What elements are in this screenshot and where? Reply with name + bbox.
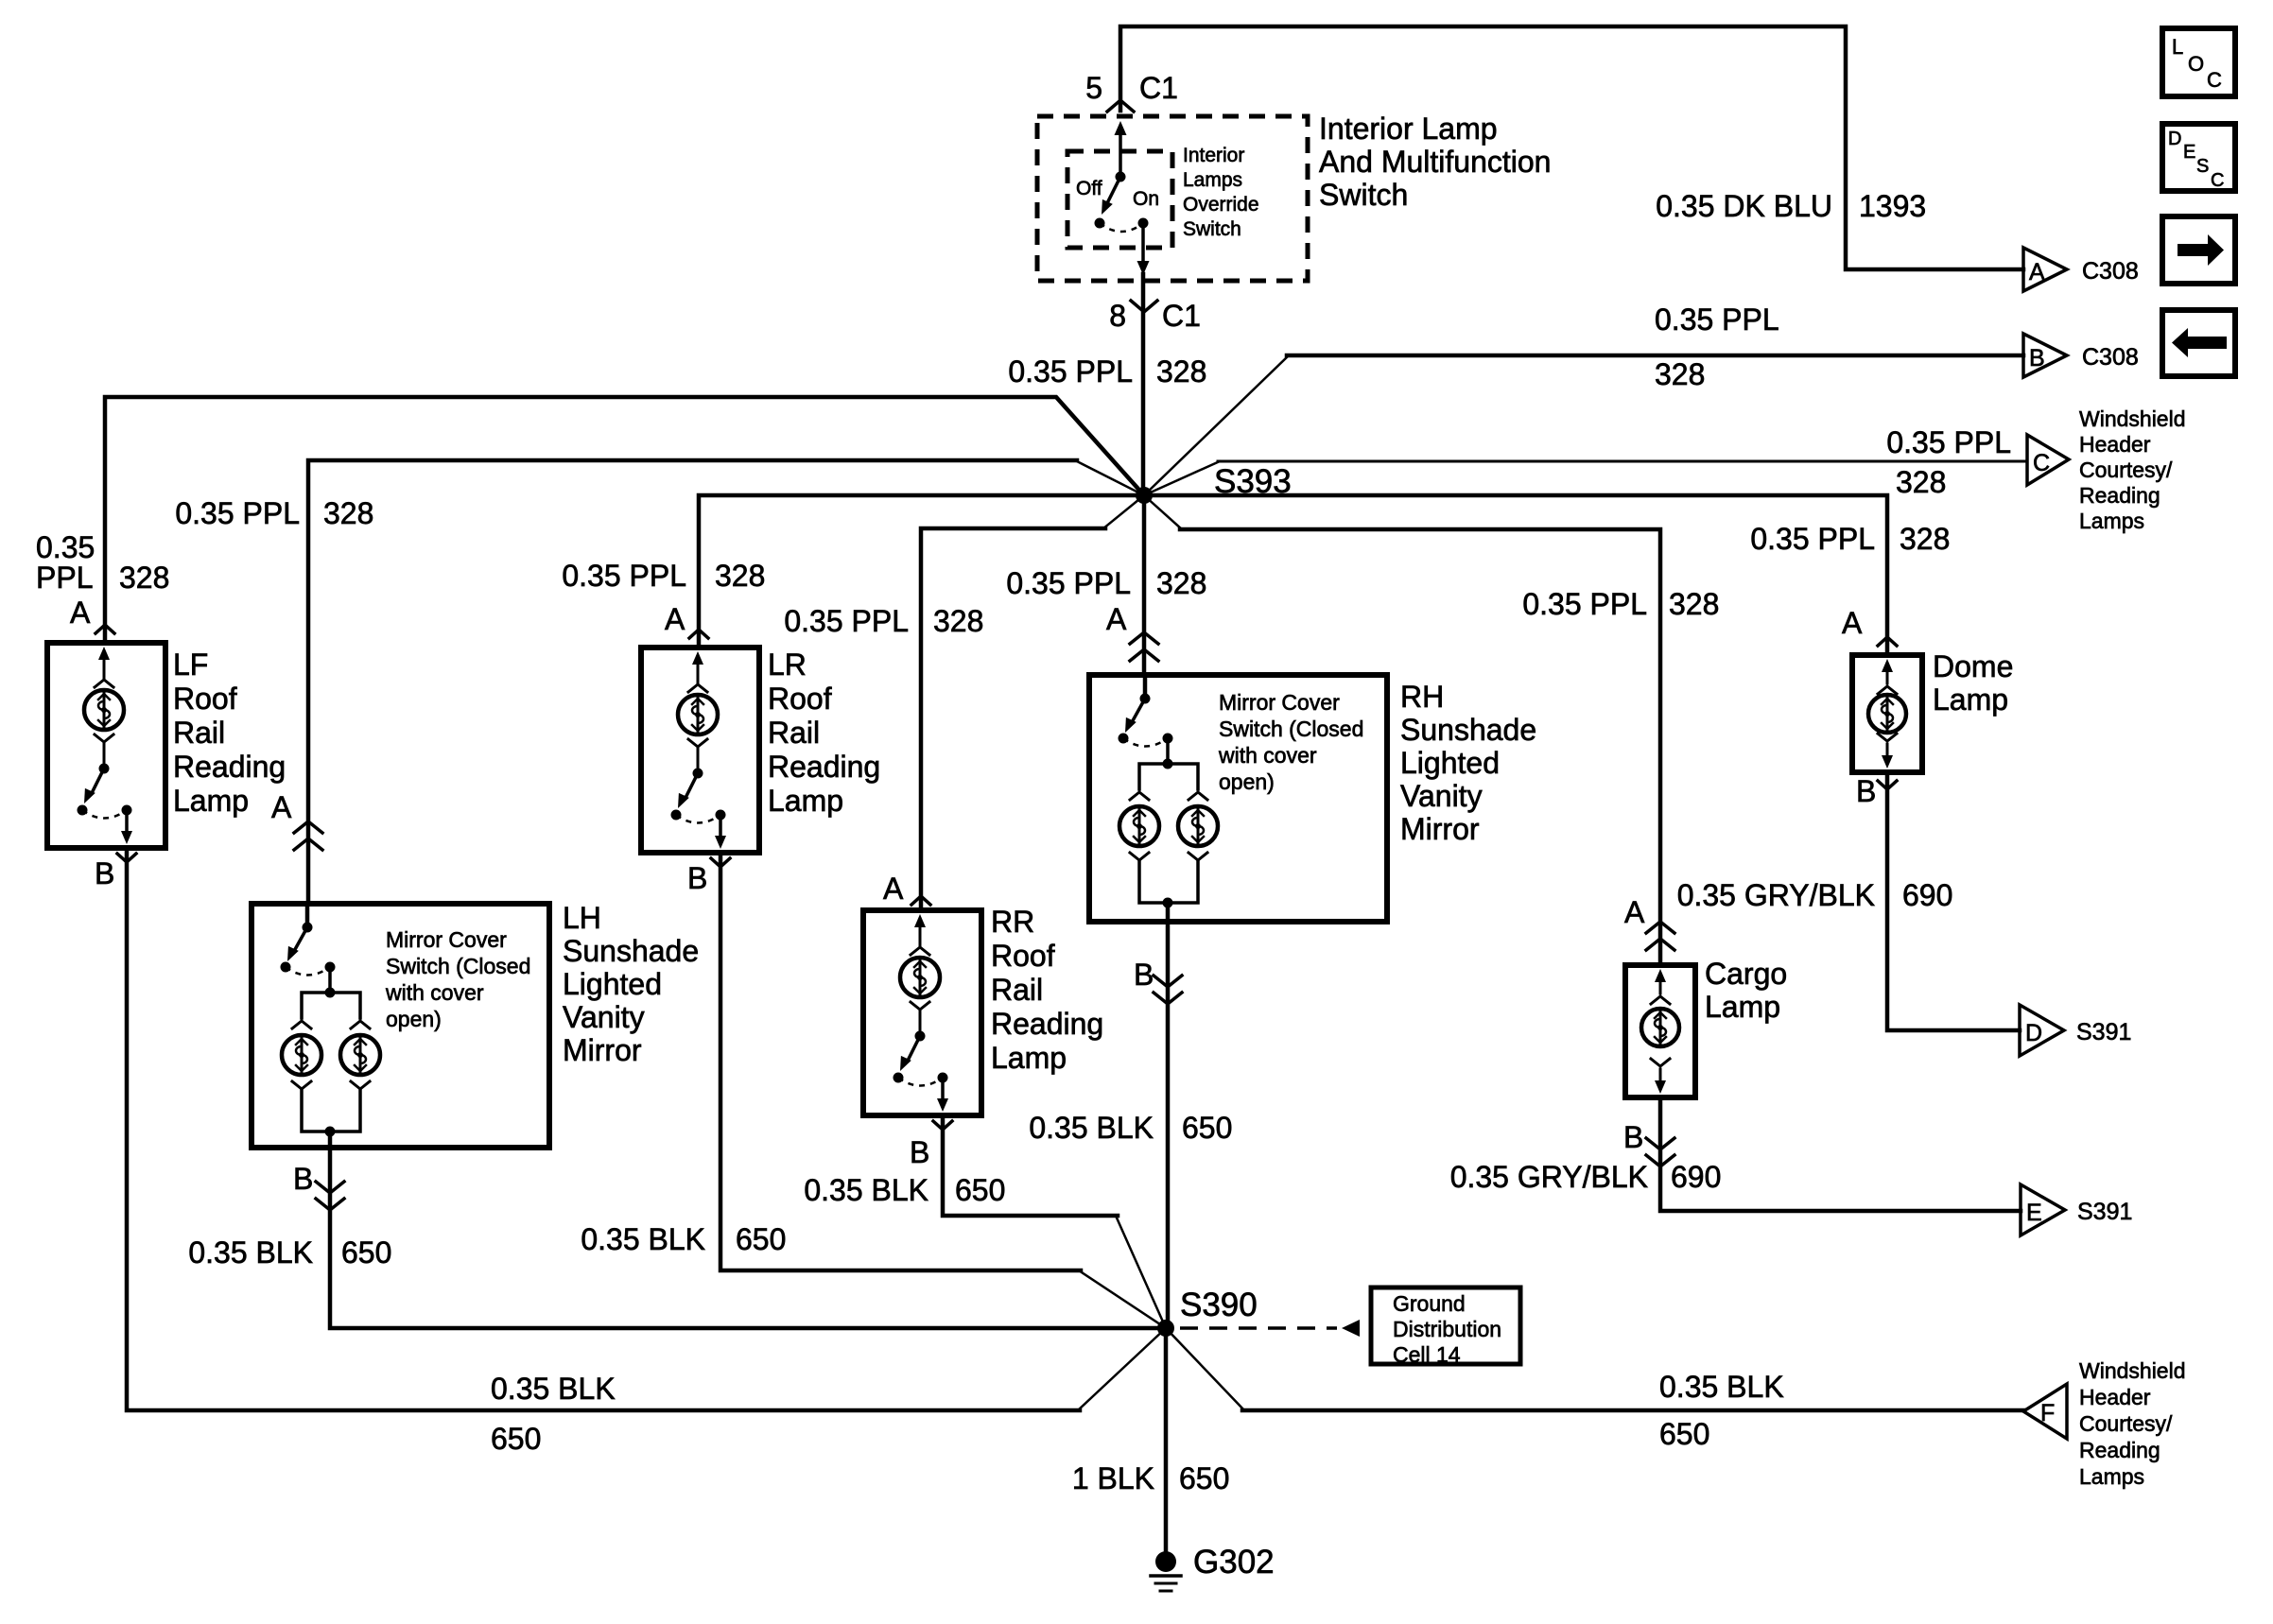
- svg-text:0.35 PPL: 0.35 PPL: [175, 496, 300, 530]
- terminal chevron A (RR): [911, 896, 930, 905]
- svg-text:Lighted: Lighted: [563, 967, 662, 1001]
- svg-text:Vanity: Vanity: [1400, 779, 1483, 813]
- svg-text:Mirror Cover: Mirror Cover: [386, 927, 507, 952]
- override switch Off contact dot: [1095, 218, 1105, 229]
- svg-text:Lamp: Lamp: [768, 784, 843, 818]
- svg-text:650: 650: [491, 1422, 541, 1456]
- svg-text:650: 650: [736, 1222, 786, 1256]
- connector triangle D to S391: [2020, 1005, 2064, 1056]
- svg-text:A: A: [2029, 259, 2045, 285]
- svg-text:B: B: [687, 861, 707, 895]
- svg-text:Vanity: Vanity: [563, 1000, 645, 1034]
- svg-text:A: A: [70, 596, 91, 630]
- svg-text:Dome: Dome: [1933, 649, 2013, 683]
- svg-text:650: 650: [1659, 1417, 1709, 1451]
- svg-text:Roof: Roof: [173, 682, 237, 716]
- cargo lamp box: [1625, 965, 1695, 1097]
- wire 0.35 BLK 650 from RR lamp to splice S390: [943, 1115, 1118, 1216]
- svg-text:0.35 DK BLU: 0.35 DK BLU: [1656, 189, 1832, 223]
- terminal chevron B (LF): [117, 854, 136, 862]
- wire circuit 328 from switch pin 8 down to splice S393: [1141, 274, 1146, 495]
- svg-text:A: A: [1106, 602, 1127, 636]
- svg-text:0.35 BLK: 0.35 BLK: [1659, 1370, 1784, 1404]
- svg-text:328: 328: [1156, 354, 1206, 389]
- wire 0.35 PPL 328 from S393 to windshield header connector C: [1144, 461, 1220, 495]
- svg-text:8: 8: [1109, 299, 1126, 333]
- svg-text:PPL: PPL: [36, 561, 93, 595]
- svg-text:Reading: Reading: [2079, 1438, 2160, 1462]
- LR roof rail reading lamp box: [641, 648, 759, 853]
- connector chevron pin 5: [1107, 100, 1134, 112]
- svg-text:L: L: [2172, 35, 2183, 59]
- wire 0.35 PPL 328 from S393 to LR roof rail reading lamp: [699, 495, 1144, 648]
- svg-text:Lamp: Lamp: [173, 784, 249, 818]
- svg-text:Roof: Roof: [768, 682, 832, 716]
- svg-text:650: 650: [955, 1173, 1005, 1207]
- RR roof rail reading lamp box: [863, 910, 981, 1115]
- svg-text:Lamp: Lamp: [991, 1041, 1067, 1075]
- terminal chevron B (RR): [933, 1121, 952, 1130]
- terminal chevron B (LR): [711, 858, 730, 867]
- svg-text:328: 328: [1655, 357, 1705, 391]
- svg-text:0.35 BLK: 0.35 BLK: [188, 1235, 313, 1270]
- svg-text:Rail: Rail: [173, 716, 225, 750]
- svg-text:B: B: [95, 856, 114, 890]
- svg-text:On: On: [1133, 188, 1159, 210]
- RH sunshade lighted vanity mirror box: [1089, 675, 1387, 922]
- svg-text:RH: RH: [1400, 680, 1444, 714]
- svg-text:Distribution: Distribution: [1393, 1317, 1501, 1341]
- terminal chevron A (LR): [689, 630, 708, 638]
- wire circuit 1393 from switch pin 5 to connector C308 terminal A: [1120, 26, 2023, 269]
- svg-text:Lamp: Lamp: [1705, 990, 1780, 1024]
- svg-text:C308: C308: [2082, 258, 2139, 285]
- dashed reference line from S390 to ground distribution: [1180, 1326, 1337, 1330]
- svg-text:with cover: with cover: [1218, 743, 1317, 768]
- svg-text:B: B: [910, 1135, 929, 1169]
- svg-text:Lamp: Lamp: [1933, 682, 2008, 717]
- svg-text:650: 650: [1179, 1461, 1229, 1495]
- svg-text:Cell 14: Cell 14: [1393, 1342, 1461, 1367]
- connector triangle C windshield header: [2027, 435, 2069, 485]
- wire 0.35 BLK 650 from LF lamp to splice S390: [127, 848, 1080, 1410]
- svg-text:RR: RR: [991, 905, 1034, 939]
- wire 0.35 GRY/BLK 690 from cargo lamp to connector E: [1660, 1097, 2021, 1211]
- override switch On contact dot: [1138, 218, 1149, 229]
- override switch travel dashed arc: [1100, 223, 1143, 232]
- svg-text:Roof: Roof: [991, 939, 1055, 973]
- inline connector double chevron (cargo B): [1646, 1138, 1674, 1149]
- connector triangle F windshield header: [2023, 1384, 2067, 1439]
- svg-text:328: 328: [1900, 522, 1950, 556]
- svg-text:Switch: Switch: [1319, 178, 1408, 212]
- svg-text:0.35: 0.35: [36, 530, 95, 564]
- svg-text:B: B: [1134, 958, 1154, 992]
- svg-text:0.35 BLK: 0.35 BLK: [491, 1372, 616, 1406]
- svg-text:A: A: [1624, 895, 1645, 929]
- svg-text:650: 650: [341, 1235, 391, 1270]
- svg-text:Rail: Rail: [768, 716, 820, 750]
- inline connector double chevron (RH A): [1130, 632, 1158, 644]
- connector triangle A to C308: [2023, 248, 2067, 291]
- svg-text:690: 690: [1902, 878, 1952, 912]
- svg-text:LR: LR: [768, 648, 807, 682]
- override switch arm: [1108, 177, 1120, 201]
- svg-text:Header: Header: [2079, 432, 2151, 457]
- page-back arrow box: [2162, 310, 2235, 376]
- svg-text:with cover: with cover: [385, 980, 484, 1005]
- wire 0.35 BLK 650 from S390 to windshield header connector F: [1166, 1328, 1244, 1410]
- wire 0.35 PPL 328 from S393 to LH vanity mirror: [1075, 460, 1144, 495]
- svg-text:0.35 BLK: 0.35 BLK: [804, 1173, 928, 1207]
- wire 1 BLK 650 from S390 to ground G302: [1164, 1328, 1169, 1552]
- svg-text:C: C: [2033, 450, 2050, 476]
- ground distribution cell 14 box: [1371, 1287, 1520, 1364]
- svg-text:B: B: [293, 1162, 313, 1196]
- svg-text:Lighted: Lighted: [1400, 746, 1500, 780]
- svg-text:Ground: Ground: [1393, 1291, 1466, 1316]
- svg-text:C: C: [2211, 170, 2224, 191]
- wire 0.35 PPL 328 from S393 to cargo lamp: [1144, 495, 1182, 529]
- terminal chevron B (dome): [1878, 781, 1897, 789]
- svg-text:328: 328: [1669, 587, 1719, 621]
- Interior Lamps Override Switch dashed box: [1067, 151, 1172, 248]
- svg-text:Switch: Switch: [1183, 218, 1241, 240]
- svg-text:Sunshade: Sunshade: [563, 934, 699, 968]
- svg-text:open): open): [386, 1007, 442, 1031]
- DESC legend box: [2162, 124, 2235, 191]
- wire 0.35 BLK 650 from RH mirror down to splice S390: [1166, 922, 1171, 1328]
- svg-text:F: F: [2040, 1400, 2055, 1426]
- svg-text:0.35 PPL: 0.35 PPL: [1008, 354, 1133, 389]
- svg-text:328: 328: [1156, 566, 1206, 600]
- svg-text:LF: LF: [173, 648, 208, 682]
- svg-text:Reading: Reading: [991, 1007, 1103, 1041]
- page-forward arrow box: [2162, 216, 2235, 284]
- svg-text:Mirror: Mirror: [1400, 812, 1480, 846]
- svg-text:Reading: Reading: [768, 750, 880, 784]
- override switch pivot dot: [1116, 172, 1126, 182]
- svg-text:O: O: [2188, 52, 2204, 76]
- svg-text:A: A: [1842, 606, 1863, 640]
- svg-text:Cargo: Cargo: [1705, 957, 1787, 991]
- wire 0.35 BLK 650 from LR lamp to splice S390: [720, 853, 1081, 1270]
- svg-text:0.35 PPL: 0.35 PPL: [1522, 587, 1647, 621]
- dome lamp box: [1852, 655, 1922, 772]
- svg-text:Courtesy/: Courtesy/: [2079, 458, 2173, 482]
- svg-text:Rail: Rail: [991, 973, 1043, 1007]
- svg-text:And Multifunction: And Multifunction: [1319, 145, 1551, 179]
- svg-text:Courtesy/: Courtesy/: [2079, 1411, 2173, 1436]
- svg-text:5: 5: [1085, 71, 1102, 105]
- svg-text:C1: C1: [1139, 71, 1178, 105]
- svg-text:Lamps: Lamps: [1183, 169, 1242, 191]
- svg-text:650: 650: [1182, 1111, 1232, 1145]
- svg-text:0.35 PPL: 0.35 PPL: [562, 559, 686, 593]
- svg-text:Mirror: Mirror: [563, 1033, 642, 1067]
- connector triangle B to C308: [2023, 334, 2067, 377]
- svg-text:Off: Off: [1076, 178, 1102, 199]
- svg-text:Reading: Reading: [173, 750, 286, 784]
- svg-text:0.35 BLK: 0.35 BLK: [581, 1222, 705, 1256]
- svg-text:328: 328: [1896, 465, 1946, 499]
- connector chevron pin 8: [1131, 301, 1157, 312]
- svg-text:D: D: [2168, 129, 2181, 149]
- svg-text:328: 328: [715, 559, 765, 593]
- svg-text:Lamps: Lamps: [2079, 1464, 2144, 1489]
- svg-text:0.35 PPL: 0.35 PPL: [1750, 522, 1875, 556]
- LOC legend box: [2162, 28, 2235, 96]
- svg-text:open): open): [1219, 769, 1275, 794]
- svg-text:690: 690: [1671, 1160, 1721, 1194]
- svg-text:Windshield: Windshield: [2079, 1358, 2186, 1383]
- svg-text:S391: S391: [2076, 1019, 2131, 1045]
- svg-text:S: S: [2196, 156, 2209, 177]
- inline connector double chevron (LH A): [294, 821, 322, 833]
- svg-text:Mirror Cover: Mirror Cover: [1219, 690, 1340, 715]
- terminal chevron A (LF): [95, 625, 114, 633]
- svg-text:0.35 PPL: 0.35 PPL: [1006, 566, 1131, 600]
- svg-text:Interior Lamp: Interior Lamp: [1319, 112, 1498, 146]
- svg-text:Interior: Interior: [1183, 145, 1244, 166]
- svg-text:0.35 PPL: 0.35 PPL: [1886, 425, 2011, 459]
- wire 0.35 PPL 328 from S393 to dome lamp: [1144, 495, 1887, 655]
- terminal chevron A (dome): [1878, 637, 1897, 646]
- svg-text:C1: C1: [1162, 299, 1201, 333]
- svg-text:1 BLK: 1 BLK: [1072, 1461, 1154, 1495]
- svg-text:E: E: [2183, 142, 2195, 163]
- svg-text:D: D: [2025, 1020, 2042, 1046]
- svg-text:1393: 1393: [1859, 189, 1926, 223]
- svg-text:B: B: [1856, 774, 1876, 808]
- svg-text:S391: S391: [2077, 1199, 2132, 1225]
- wire 0.35 PPL 328 from S393 down to RH vanity mirror: [1142, 495, 1147, 675]
- wire 0.35 PPL 328 from splice S393 to connector C308 terminal B: [1144, 355, 1289, 495]
- svg-text:A: A: [271, 790, 292, 824]
- svg-text:Reading: Reading: [2079, 483, 2160, 508]
- svg-text:0.35 GRY/BLK: 0.35 GRY/BLK: [1677, 878, 1875, 912]
- svg-text:0.35 BLK: 0.35 BLK: [1029, 1111, 1154, 1145]
- wire 0.35 GRY/BLK 690 from dome lamp to connector D: [1887, 772, 2020, 1030]
- svg-text:Lamps: Lamps: [2079, 509, 2144, 533]
- svg-text:G302: G302: [1193, 1544, 1275, 1581]
- svg-text:A: A: [665, 602, 685, 636]
- svg-text:S390: S390: [1180, 1287, 1258, 1323]
- inline connector double chevron (cargo A): [1646, 922, 1674, 933]
- svg-text:Windshield: Windshield: [2079, 406, 2186, 431]
- splice S390: [1157, 1320, 1174, 1337]
- wire 0.35 BLK 650 from LH mirror to splice S390: [330, 1148, 1166, 1328]
- splice S393: [1136, 487, 1153, 504]
- svg-text:328: 328: [323, 496, 373, 530]
- svg-text:Header: Header: [2079, 1385, 2151, 1409]
- connector triangle E to S391: [2021, 1184, 2065, 1235]
- svg-text:A: A: [883, 872, 904, 906]
- svg-text:C: C: [2207, 68, 2222, 92]
- LF roof rail reading lamp box: [47, 643, 165, 848]
- svg-text:0.35 GRY/BLK: 0.35 GRY/BLK: [1450, 1160, 1648, 1194]
- svg-text:Switch (Closed: Switch (Closed: [386, 954, 530, 978]
- svg-text:328: 328: [119, 561, 169, 595]
- svg-text:0.35 PPL: 0.35 PPL: [1655, 302, 1779, 337]
- override switch output arrow: [1141, 223, 1145, 261]
- wire 0.35 PPL 328 from S393 to LF roof rail reading lamp: [105, 397, 1144, 643]
- svg-text:Sunshade: Sunshade: [1400, 713, 1536, 747]
- svg-text:B: B: [2029, 345, 2045, 371]
- wire 0.35 PPL 328 from S393 to RR roof rail reading lamp: [1103, 495, 1144, 528]
- inline connector double chevron (LH B): [316, 1182, 344, 1193]
- svg-text:Override: Override: [1183, 194, 1259, 216]
- svg-text:B: B: [1623, 1120, 1643, 1154]
- svg-text:328: 328: [933, 604, 983, 638]
- svg-text:0.35 PPL: 0.35 PPL: [784, 604, 909, 638]
- svg-text:C308: C308: [2082, 344, 2139, 371]
- svg-text:E: E: [2026, 1200, 2042, 1226]
- svg-text:LH: LH: [563, 901, 601, 935]
- override switch input arrow: [1115, 121, 1127, 135]
- ground symbol G302: [1155, 1551, 1176, 1572]
- svg-text:Switch (Closed: Switch (Closed: [1219, 717, 1363, 741]
- LH sunshade lighted vanity mirror box: [252, 904, 549, 1148]
- inline connector double chevron (RH B): [1154, 976, 1182, 987]
- Interior Lamp And Multifunction Switch dashed box: [1037, 116, 1308, 281]
